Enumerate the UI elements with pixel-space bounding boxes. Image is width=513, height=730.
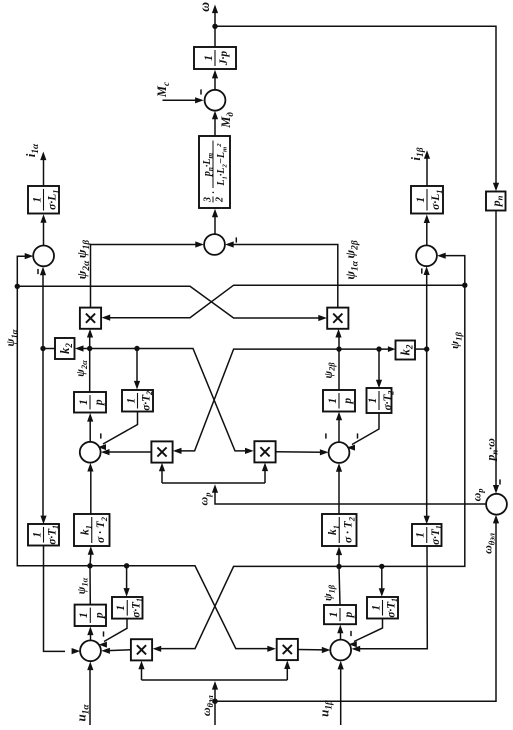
node omega_el junction (212, 699, 217, 704)
multiplier A (rotor alpha) (151, 441, 172, 462)
wire psi1a to k1/(sigma T2) a (88, 546, 94, 566)
multiplier C (stator beta) (277, 639, 298, 660)
node omega_p label left (196, 492, 212, 506)
svg-text:ω: ω (197, 2, 212, 12)
wire 1/(sigma T1) a to u-sum alpha (44, 546, 81, 655)
wire M sum to 1/(J*p) (212, 70, 218, 90)
wire k2 path to i1a sum (negative) (38, 267, 46, 349)
wire psi2a to multiplier A' (87, 329, 93, 349)
wire feed to 1/(sigma T2) alpha (134, 349, 140, 390)
block 1/(sigma*T1) stator alpha (112, 597, 144, 619)
wire p_n to omega_p sum (negative) (493, 211, 500, 494)
node k2b output junction (424, 346, 429, 351)
node i1b label (408, 147, 426, 160)
block torque gain 3/2*pn*Lm/(L1*L2-Lm^2) (199, 136, 230, 208)
wire psi1a feedback vertical (17, 286, 90, 566)
wire k2 alpha output (43, 348, 55, 350)
wire k2 beta output (415, 348, 427, 350)
wire 1/(J*p) to omega (214, 26, 216, 47)
node psi1a bottom label (76, 577, 90, 594)
svg-text:1: 1 (31, 197, 43, 203)
summing junction psi2b (329, 442, 350, 463)
wire 1/p stator b output (339, 567, 340, 606)
svg-text:1: 1 (203, 55, 215, 61)
svg-text:1: 1 (78, 612, 90, 618)
multiplier D (stator alpha) (131, 639, 152, 660)
wire psi1b to multiplier A' (102, 285, 465, 321)
wire 1/(sigma T1) bottom-b to u-sum (negative) (349, 619, 383, 648)
svg-text:1: 1 (367, 398, 379, 404)
summing junction M (205, 90, 226, 111)
node omega output label (197, 2, 212, 12)
block 1/p rotor alpha (74, 392, 106, 413)
wire multiplier B' to torque sum (negative) (225, 237, 338, 308)
svg-text:J·p: J·p (218, 51, 230, 67)
node omega_p right label (469, 488, 485, 502)
wire 1/(sigma T2) b to psi2b sum (negative) (347, 413, 379, 451)
node psi1b dist junction (336, 564, 341, 569)
svg-text:1: 1 (328, 612, 340, 618)
wire 1/(sigma T2) a to psi2a sum (negative) (98, 412, 138, 451)
wire psi1b feedback vertical (382, 285, 465, 566)
svg-text:1: 1 (327, 398, 339, 404)
node M_c label (155, 82, 171, 98)
wire i1a sum to 1/(sigma L1) (40, 214, 46, 245)
node psi2a junction (87, 346, 92, 351)
node psi1a left label (3, 329, 19, 346)
node omega_el right label (481, 532, 497, 554)
wire psi2a sum to 1/p (87, 413, 93, 442)
block 1/p rotor beta (323, 390, 355, 412)
node u1a label (73, 704, 91, 722)
node psi2a label (75, 360, 89, 377)
block 1/p stator alpha (75, 605, 106, 626)
node psi1b junction (462, 283, 467, 288)
wire omega_el to multiplier C (284, 660, 290, 680)
block 1/(sigma*T1) stator beta (367, 597, 399, 619)
wire multiplier A' to torque sum (91, 241, 204, 308)
wire i1b output arrow (424, 150, 430, 186)
wire psi1a cross to multiplier C (90, 566, 276, 652)
block k1/(sigma*T2) alpha (74, 514, 110, 546)
wire psi2b to multiplier B' (335, 329, 341, 349)
multiplier B (rotor beta) (254, 441, 275, 462)
wire k2 path to i1b sum (negative) (422, 266, 430, 349)
node omega junction (212, 24, 217, 29)
node psi2b junction (336, 346, 341, 351)
svg-text:1: 1 (415, 197, 427, 203)
node psi1a junction (15, 284, 20, 289)
node pn-omega label (484, 438, 500, 462)
wire psi1b to k1/(sigma T2) b (336, 547, 342, 567)
block 1/(sigma*L1) alpha (28, 186, 61, 214)
wire u1b input (338, 661, 344, 725)
block 1/(sigma*T2) alpha (122, 390, 154, 412)
node i1a label (23, 143, 41, 157)
node 1/(sigma T1) bottom-a feed junction (124, 563, 129, 568)
wire omega_p to multiplier B (262, 463, 268, 484)
node k2a output junction (40, 346, 45, 351)
summing junction i1b (416, 245, 437, 266)
wire k1/(sigma T2) b to psi2b sum (336, 463, 342, 514)
wire psi2b sum to 1/p beta (336, 412, 342, 442)
svg-text:1: 1 (31, 532, 43, 538)
wire 1/(sigma T1) bottom-a to u-sum (negative) (99, 619, 127, 648)
summing junction i1a (33, 246, 54, 267)
wire omega_el to omega_p sum (215, 515, 499, 701)
node 1/(sigma T2) b feed junction (376, 346, 381, 351)
node M_d label (219, 112, 235, 129)
wire 1/p alpha to psi2a node (89, 349, 91, 393)
wire 1/p stator a output (89, 566, 91, 605)
wire 1/(sigma T1) b to u-sum beta (352, 546, 428, 652)
wire k1/(sigma T2) a to psi2a sum (87, 463, 93, 514)
wire i1b sum to 1/(sigma L1) (424, 214, 430, 245)
block 1/(sigma*L1) beta (411, 186, 444, 214)
node u1b label (316, 700, 334, 717)
wire omega output arrow (212, 5, 218, 27)
node psi1a psi2b label (342, 240, 360, 280)
block 1/(J*p) (194, 47, 236, 69)
wire psi2b cross to multiplier A (173, 349, 339, 454)
block k1/(sigma*T2) beta (322, 514, 357, 546)
wire u-sum a to 1/p stator a (87, 627, 93, 641)
wire omega feedback to p_n (215, 26, 499, 191)
block 1/(sigma*T1) k2-path alpha (28, 524, 60, 546)
block 1/p stator beta (324, 605, 356, 624)
svg-text:1: 1 (415, 532, 427, 538)
wire torque block to M sum (212, 111, 218, 136)
wire feed to 1/(sigma T2) beta (376, 349, 382, 388)
block k2 alpha (55, 338, 75, 359)
wire psi1a to i1a sum (17, 253, 33, 286)
multiplier A' (torque alpha) (80, 308, 101, 329)
svg-text:1: 1 (115, 605, 127, 611)
wire omega_el to multiplier D (138, 661, 144, 680)
block k2 beta (396, 341, 416, 360)
multiplier B' (torque beta) (327, 308, 348, 329)
wire multiplier C to u-sum b (298, 647, 331, 653)
summing junction torque (204, 234, 225, 255)
wire feed to 1/(sigma T1) bottom-a (124, 566, 130, 597)
svg-text:1: 1 (78, 399, 90, 405)
wire psi2b line to k2 beta (339, 346, 395, 352)
wire torque sum to torque block (212, 209, 218, 234)
svg-text:1: 1 (125, 398, 137, 404)
wire i1a output arrow (40, 152, 46, 187)
wire omega_p to multiplier A (159, 463, 165, 483)
wire psi2a into k2 alpha (75, 345, 90, 351)
wire multiplier D to u-sum a (101, 648, 131, 654)
node psi2a psi1b label (74, 240, 92, 280)
wire k2b to 1/(sigma T1) b (424, 349, 430, 524)
svg-text:p: p (343, 611, 355, 618)
wire u1a input (87, 662, 93, 726)
wire psi1b to i1b sum (437, 253, 465, 286)
svg-text:1: 1 (370, 605, 382, 611)
wire multiplier B to psi2b sum (negative) (276, 433, 329, 455)
node psi1b right label (448, 332, 464, 349)
block 1/(sigma*T1) k2-path beta (412, 524, 443, 546)
svg-text:3: 3 (202, 197, 213, 203)
wire 1/p beta to psi2b node (338, 349, 340, 390)
wire psi2a cross to multiplier B (90, 349, 254, 455)
wire u-sum b to 1/p stator b (337, 625, 343, 640)
node 1/(sigma T1) bottom-b feed junction (379, 564, 384, 569)
node omega_el left label (199, 695, 215, 717)
node psi1a dist junction (87, 563, 92, 568)
wire multiplier A to psi2a sum (101, 449, 151, 455)
svg-text:p: p (342, 398, 354, 405)
wire feed to 1/(sigma T1) bottom-b (379, 566, 385, 596)
node 1/(sigma T2) a feed junction (134, 346, 139, 351)
wire psi1b cross to multiplier D (153, 566, 382, 652)
wire M_c input (negative) (163, 89, 204, 103)
svg-text:2: 2 (215, 197, 226, 203)
wire omega_el distribution (142, 680, 288, 725)
node psi2b label (323, 362, 337, 379)
block 1/(sigma*T2) beta (367, 388, 396, 413)
wire omega_p distribution (162, 483, 486, 504)
summing junction psi2a (80, 442, 101, 463)
svg-text:pn​·ω: pn​·ω (484, 438, 500, 462)
svg-text:p: p (93, 399, 105, 406)
wire k2a to 1/(sigma T1) a (40, 349, 46, 525)
block p_n (486, 192, 506, 211)
node psi1b bottom label (323, 584, 337, 601)
summing junction omega_p (486, 494, 507, 515)
svg-text:p: p (94, 612, 106, 619)
summing junction u alpha (80, 640, 101, 661)
summing junction u beta (330, 640, 351, 661)
wire psi1a to multiplier B' (17, 286, 327, 321)
